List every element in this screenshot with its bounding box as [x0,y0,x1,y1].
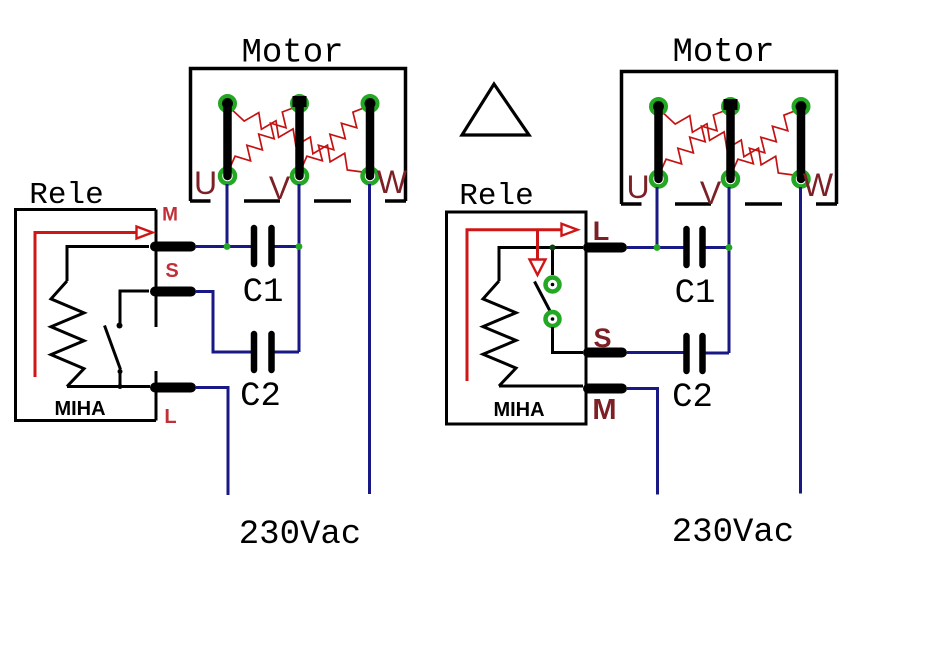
terminal ring top U right [651,99,666,114]
wire L terminal down to 230Vac [196,388,228,496]
junction dot V/C1 right [726,244,733,251]
svg-text:C2: C2 [672,379,713,417]
svg-text:C1: C1 [675,275,716,313]
red arrowhead right (down to switch) [530,260,546,276]
svg-text:V: V [269,170,291,206]
wire M terminal to C1 left plate [196,245,251,248]
wire from motor W terminal down to 230Vac right [799,187,802,494]
switch fixed contact dot left [117,323,123,329]
capacitor C1 left [254,228,272,264]
red actuation arrow right [467,230,561,381]
svg-text:S: S [165,260,178,282]
motor box right [622,72,837,205]
relay coil wire to L terminal right [499,248,583,282]
svg-text:U: U [626,169,649,205]
relay coil wire to M terminal left [67,247,149,282]
svg-text:W: W [803,167,834,203]
terminal ring top V right [723,99,738,114]
terminal link bar W left [366,104,375,177]
svg-text:L: L [164,406,176,428]
capacitor C2 left [254,334,272,370]
wire C2 right plate to V line [275,351,300,354]
junction dot U/L right [654,244,661,251]
terminal bar M right [588,384,622,394]
terminal ring top V left [292,96,307,111]
motor winding U1-U2 left (zigzag V-top to U-bottom) [228,106,300,174]
wire from motor U terminal down right [656,187,659,248]
red arrowhead right (to L) [562,224,578,236]
terminal ring top W right [794,99,809,114]
wire C1 right plate to V line right [706,246,730,249]
relay coil bottom wire to L terminal left [67,385,150,388]
wire from motor U terminal down [226,184,229,247]
svg-text:Motor: Motor [241,35,343,73]
svg-text:M: M [162,205,178,226]
capacitor C1 right [687,229,703,265]
svg-text:L: L [593,216,610,246]
junction dot V/C1 left [296,243,303,250]
wire from motor V terminal down to C2 [298,184,301,352]
wire S terminal to switch contact left [120,291,149,323]
motor winding V1-V2 left (zigzag W-top to V-bottom) [300,106,371,174]
svg-text:M: M [592,394,616,426]
wire switch to S terminal right [553,327,584,353]
terminal ring bottom V left [292,169,307,184]
svg-text:C1: C1 [243,274,284,312]
relay box right [447,212,587,424]
svg-text:C2: C2 [240,378,281,416]
delta (triangle) symbol [462,84,529,135]
wire M terminal down to 230Vac right [627,389,658,495]
terminal bar M left [155,242,191,252]
wire C2 right plate to V line right [706,352,730,355]
terminal link bar V right [726,107,735,180]
svg-text:U: U [194,165,217,201]
terminal bar S left [155,287,191,297]
terminal bar L right [588,243,622,253]
wire S terminal to C2 left plate right [627,351,684,354]
motor winding U1-U2 right (zigzag V-top to U-bottom) [659,109,731,177]
link bar top cap V left [293,96,307,107]
terminal ring bottom W left [363,169,378,184]
red branch to switch right [536,230,539,259]
svg-text:V: V [700,175,722,211]
terminal ring bottom V right [723,172,738,187]
svg-text:MIHA: MIHA [493,399,544,421]
terminal ring top U left [220,96,235,111]
terminal ring bottom U right [651,172,666,187]
svg-text:230Vac: 230Vac [239,516,361,554]
terminal ring bottom U left [220,169,235,184]
svg-text:W: W [377,164,408,200]
red actuation arrow left [35,233,136,378]
wire S terminal to C2 left plate [196,292,251,353]
terminal link bar U right [654,107,663,180]
terminal bar S right [588,348,622,358]
motor box left [191,69,406,202]
junction dot L wire right [550,245,556,251]
switch pivot stub left [119,372,122,387]
motor box right bottom dashed edge [621,202,837,206]
switch pivot dot left [118,369,123,374]
relay box left (right edge broken at switch) [16,210,157,421]
capacitor C2 right [687,336,703,371]
motor box left bottom dashed edge [190,199,406,203]
svg-text:Rele: Rele [29,178,103,213]
junction dot pivot-coil wire left [118,384,123,389]
terminal bar L left [155,383,191,393]
wire L terminal to C1 left plate right [627,246,684,249]
wire C1 right plate to V line [275,245,300,248]
svg-text:230Vac: 230Vac [672,514,794,552]
svg-text:Rele: Rele [459,179,533,214]
terminal link bar V left [295,104,304,177]
svg-text:Motor: Motor [672,34,774,72]
relay coil resistor left [51,281,84,387]
motor winding W1-W2 left (zigzag U-top to W-bottom) [228,106,371,174]
svg-text:S: S [593,323,611,353]
terminal ring bottom W right [794,172,809,187]
relay coil bottom wire to M terminal right [499,385,583,388]
wire from motor V terminal down to C2 right [728,187,731,353]
terminal link bar W right [797,107,806,180]
svg-text:MIHA: MIHA [54,398,105,420]
switch blade left [105,326,121,370]
link bar top cap V right [724,99,738,110]
switch blade right [535,282,551,312]
relay coil resistor right [483,281,516,386]
wire from motor W terminal down to 230Vac [368,184,371,494]
switch upper contact ring right [546,278,560,292]
terminal link bar U left [223,104,232,177]
switch lower contact ring right [546,312,560,326]
motor winding V1-V2 right (zigzag W-top to V-bottom) [731,109,802,177]
terminal ring top W left [363,96,378,111]
motor winding W1-W2 right (zigzag U-top to W-bottom) [659,109,802,177]
wire L junction down to switch right [551,248,554,276]
red arrowhead left [137,227,153,239]
junction dot U/M left [224,243,231,250]
